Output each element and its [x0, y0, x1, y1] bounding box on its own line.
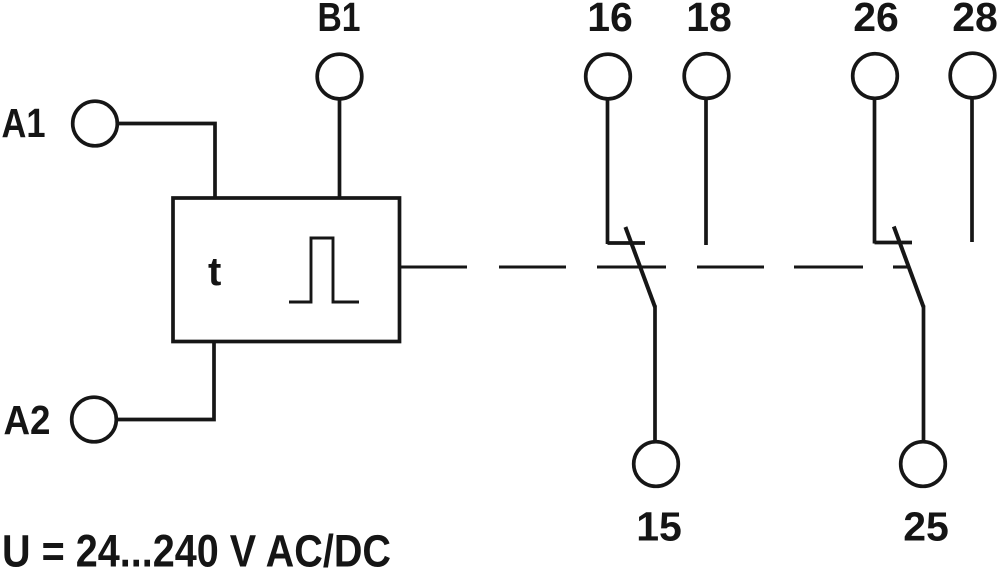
wire terminal 26 stem [873, 98, 877, 244]
wire terminal 18 stem [704, 98, 708, 245]
svg-text:18: 18 [686, 0, 732, 40]
wire A1 to box [117, 124, 215, 199]
timer function block U1 [173, 198, 400, 342]
dashed control line segment 4 [794, 265, 863, 268]
svg-text:16: 16 [587, 0, 633, 40]
svg-text:28: 28 [952, 0, 998, 40]
wire terminal 16 stem [606, 99, 610, 245]
contact 2 fixed tick [875, 241, 913, 245]
svg-text:B1: B1 [318, 0, 361, 40]
wire A2 to box [116, 341, 214, 420]
terminal 25 circle [901, 442, 946, 487]
terminal 15 circle [634, 442, 679, 487]
contact 2 blade [894, 227, 924, 308]
wire block output solid segment [400, 265, 468, 268]
contact 1 blade [625, 227, 655, 307]
terminal 26 circle [853, 54, 898, 99]
wire blade 1 to terminal 15 [653, 306, 657, 443]
svg-text:15: 15 [636, 504, 682, 550]
svg-text:A1: A1 [2, 100, 46, 146]
dashed control line segment 5 [893, 265, 908, 268]
contact 1 fixed tick [608, 241, 646, 245]
wire terminal 28 stem [970, 98, 974, 243]
terminal 28 circle [950, 53, 995, 98]
dashed control line segment 2 [597, 265, 666, 268]
pulse symbol inside block [289, 238, 359, 302]
svg-text:25: 25 [903, 504, 949, 550]
svg-text:t: t [208, 250, 221, 294]
dashed control line segment 3 [697, 265, 764, 268]
terminal B1 circle [317, 54, 362, 99]
svg-text:26: 26 [853, 0, 899, 40]
dashed control line segment 1 [499, 265, 566, 268]
wire B1 to box [338, 99, 342, 199]
terminal A2 circle [72, 397, 117, 442]
terminal 16 circle [586, 54, 631, 99]
terminal A1 circle [73, 101, 118, 146]
svg-text:A2: A2 [4, 397, 51, 443]
svg-text:U = 24...240 V AC/DC: U = 24...240 V AC/DC [2, 526, 391, 570]
wire blade 2 to terminal 25 [922, 306, 926, 443]
terminal 18 circle [684, 54, 729, 99]
